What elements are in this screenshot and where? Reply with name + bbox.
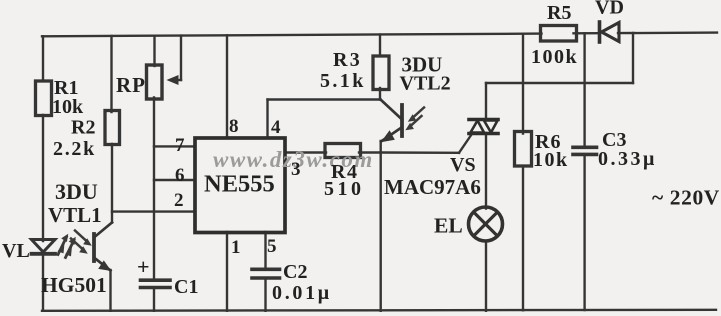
VTL1 emitter arrowhead <box>98 260 111 271</box>
wire RP wiper horizontal <box>174 79 181 81</box>
svg-text:6: 6 <box>175 165 185 186</box>
wire R2 bottom to VTL1 collector node <box>111 144 113 223</box>
wire pin 6 line <box>154 179 195 181</box>
svg-text:~ 220V: ~ 220V <box>652 186 720 210</box>
resistor R4 (horizontal) <box>325 144 361 158</box>
svg-text:C2: C2 <box>283 261 307 283</box>
wire pin 8 (rail to NE555 top) <box>226 35 228 138</box>
svg-text:R5: R5 <box>547 2 571 24</box>
capacitor C3 plates <box>573 146 597 150</box>
svg-text:VTL2: VTL2 <box>400 73 451 95</box>
svg-text:VD: VD <box>595 0 624 19</box>
svg-text:5: 5 <box>267 236 277 257</box>
wire R4 to emitter node <box>359 151 381 153</box>
phototransistor VTL1 light arrows <box>71 231 92 254</box>
wire top rail left segment <box>42 34 542 37</box>
potentiometer RP body <box>147 65 163 99</box>
wire VTL2 emitter node down to bottom rail <box>380 141 382 311</box>
svg-text:R2: R2 <box>71 117 95 139</box>
wire MT2 horizontal (triac to VD anode drop) <box>486 82 633 84</box>
wire pin 1 (NE555 bottom to bottom rail) <box>226 232 228 311</box>
wire triac MT2 vertical <box>485 83 487 120</box>
VS top bar (MT2) <box>469 118 498 122</box>
VTL1 base bar <box>92 234 96 261</box>
wire pin 3 line (NE555 to R4) <box>285 151 326 153</box>
wire R3 top (rail to R3) <box>379 35 381 56</box>
wire top rail between R5 and VD <box>574 32 599 34</box>
wire R3 bottom to pin-4 node <box>379 88 381 100</box>
capacitor C1 plates <box>141 278 171 282</box>
svg-text:2.2k: 2.2k <box>53 138 96 160</box>
wire VTL1 emitter to bottom rail <box>109 270 111 311</box>
VTL1 emitter lead <box>95 258 111 271</box>
VTL2 emitter lead <box>381 128 402 142</box>
VD triangle (pointing left) <box>602 23 620 42</box>
VTL2 collector lead <box>381 100 403 120</box>
svg-text:3DU: 3DU <box>55 179 98 204</box>
IC U1 NE555 box <box>195 138 285 233</box>
svg-text:3: 3 <box>291 159 301 180</box>
LED VL cathode bar <box>32 252 56 256</box>
svg-text:10k: 10k <box>533 149 569 171</box>
wire left rail upper (top rail to R1) <box>42 36 44 80</box>
svg-text:+: + <box>137 254 150 279</box>
svg-text:2: 2 <box>174 190 184 211</box>
phototransistor VTL2 light arrows <box>405 108 424 131</box>
wire pin 5 (NE555 bottom to C2) <box>264 232 266 268</box>
svg-text:5.1k: 5.1k <box>320 70 366 92</box>
svg-text:0.33μ: 0.33μ <box>598 148 657 170</box>
capacitor C2 plates <box>252 267 280 271</box>
VD cathode bar <box>598 22 602 42</box>
wire R6 top (rail to R6, crossing MT2 line) <box>522 34 524 134</box>
svg-text:100k: 100k <box>531 46 578 68</box>
lamp EL <box>469 207 503 241</box>
svg-text:7: 7 <box>175 135 185 156</box>
LED VL emission arrows (light toward VTL1) <box>58 234 76 258</box>
wire pin 2 line (collector node to NE555 pin 2) <box>112 210 195 212</box>
svg-text:510: 510 <box>324 178 365 200</box>
wire C3 bottom to bottom rail <box>583 156 585 310</box>
wire RP wiper drop from rail <box>180 36 182 80</box>
wire top rail right segment to 220V terminal <box>618 31 717 34</box>
svg-text:0.01μ: 0.01μ <box>272 282 332 304</box>
resistor R1 <box>36 81 52 116</box>
resistor R6 <box>515 132 532 167</box>
svg-text:4: 4 <box>271 117 281 138</box>
wire left rail middle (R1 to LED VL) <box>42 115 44 241</box>
wire C2 bottom to bottom rail <box>264 279 266 311</box>
wire emitter node to triac gate diagonal start <box>381 151 460 154</box>
VTL1 collector lead <box>95 223 113 238</box>
svg-text:10k: 10k <box>52 96 84 118</box>
LED VL triangle <box>32 240 56 254</box>
resistor R2 <box>105 111 120 145</box>
svg-text:VTL1: VTL1 <box>48 203 102 227</box>
wire pin 4 vertical <box>266 100 268 139</box>
svg-text:C1: C1 <box>174 276 198 298</box>
wire RP bottom vertical through pins 7,6 down to C1 <box>153 98 155 279</box>
wire triac MT1 to EL lamp <box>485 133 487 209</box>
wire VD anode vertical drop <box>632 33 634 83</box>
wire R2 top (rail to R2) <box>110 36 112 112</box>
svg-text:8: 8 <box>229 116 239 137</box>
triac VS <box>469 120 498 134</box>
svg-text:NE555: NE555 <box>204 171 275 198</box>
wire pin 4 horizontal to R3 bottom node <box>268 98 381 100</box>
potentiometer RP wiper arrowhead <box>167 75 179 85</box>
VS bottom bar (MT1) <box>469 132 498 136</box>
wire left rail lower (LED VL to bottom rail) <box>42 255 44 311</box>
resistor R5 (horizontal) <box>541 26 577 42</box>
svg-text:MAC97A6: MAC97A6 <box>384 175 481 199</box>
svg-text:R3: R3 <box>333 49 362 71</box>
svg-text:RP: RP <box>116 73 146 97</box>
VTL2 base bar <box>400 105 404 136</box>
VS left triangle (up) <box>471 121 485 133</box>
svg-text:EL: EL <box>434 214 463 238</box>
wire EL lamp to bottom rail <box>485 242 487 311</box>
VS right triangle (down) <box>484 121 498 133</box>
wire bottom rail <box>42 310 716 311</box>
wire RP top (rail to RP) <box>153 36 155 66</box>
resistor R3 <box>373 56 389 90</box>
svg-text:VS: VS <box>450 154 476 176</box>
diode VD <box>600 22 620 42</box>
phototransistor VTL2 <box>381 100 403 143</box>
wire C3 top vertical from R5/VD node (crossing MT2 line) <box>583 33 585 146</box>
wire pin 7 line <box>154 145 195 147</box>
svg-text:VL: VL <box>2 240 30 262</box>
svg-text:1: 1 <box>231 237 241 258</box>
wire R6 bottom to bottom rail <box>522 166 524 310</box>
svg-text:HG501: HG501 <box>41 273 107 297</box>
wire triac gate diagonal <box>459 135 472 153</box>
wire C1 bottom to bottom rail <box>153 289 155 311</box>
VTL2 emitter arrowhead <box>381 130 395 142</box>
phototransistor VTL1 <box>94 223 112 272</box>
